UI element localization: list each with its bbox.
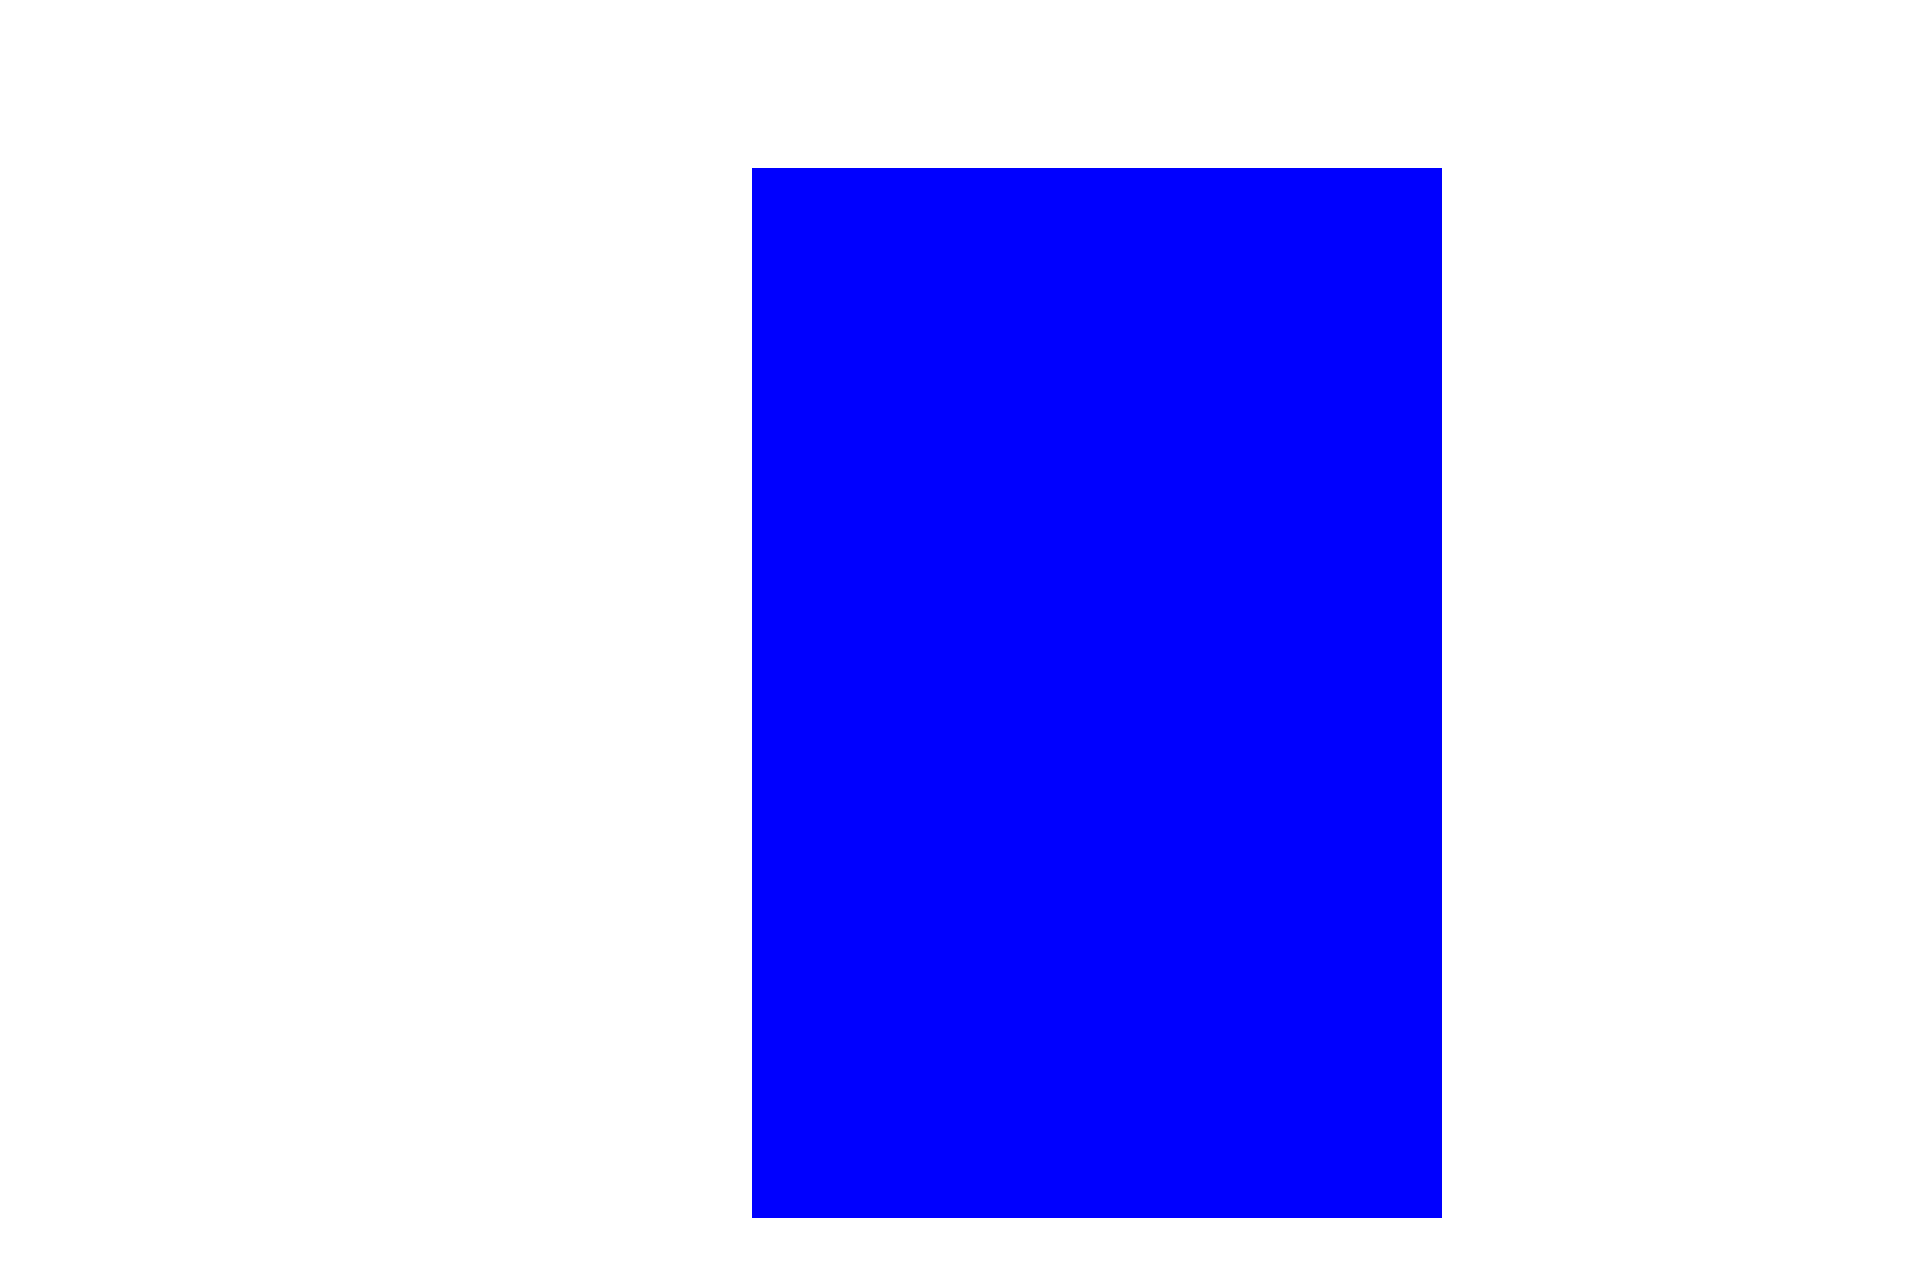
blue rectangle <box>752 168 1442 1218</box>
